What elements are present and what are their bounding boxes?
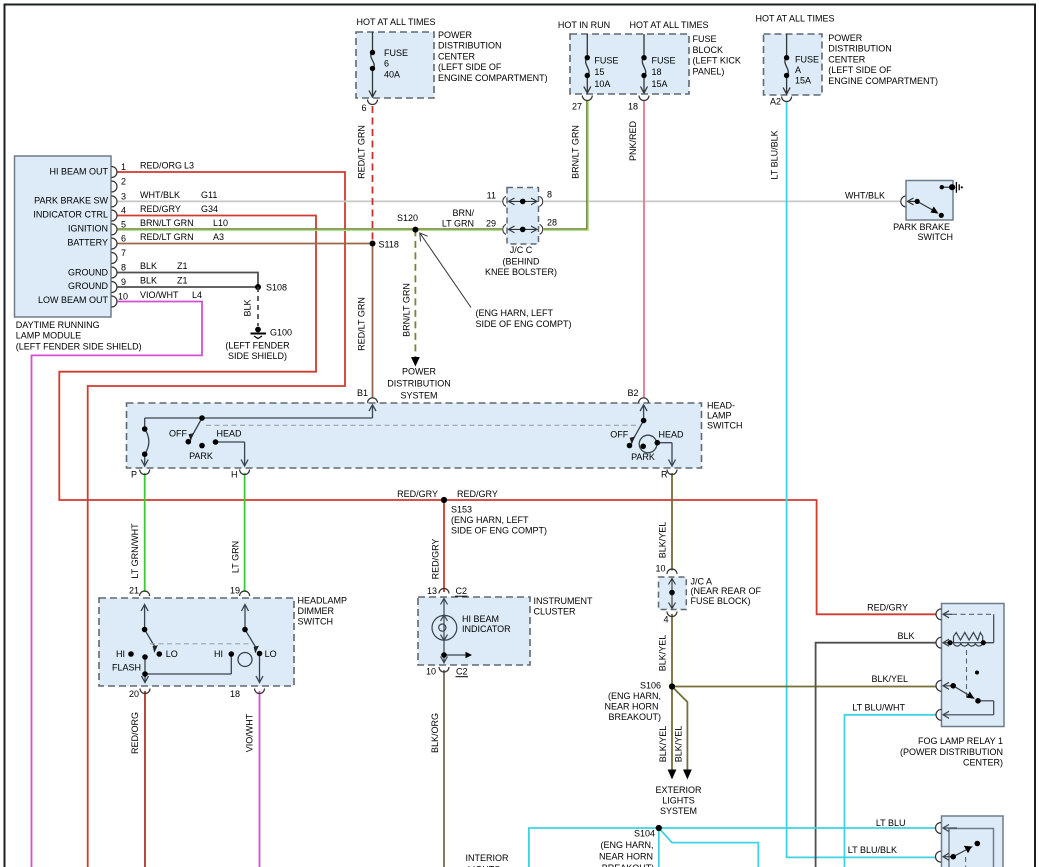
- junction connector J/C C box: [507, 188, 539, 245]
- svg-text:(LEFT FENDER: (LEFT FENDER: [225, 341, 290, 351]
- fuse 15 10A: [584, 34, 591, 93]
- svg-text:LT BLU/BLK: LT BLU/BLK: [848, 845, 897, 855]
- splice S153: [441, 497, 447, 503]
- fuse 18 connector bump: [639, 96, 649, 101]
- svg-text:RED/GRY: RED/GRY: [867, 603, 908, 613]
- splice S106: [669, 683, 675, 689]
- wire BLK from relay pin 2: [816, 643, 936, 867]
- svg-text:LAMP: LAMP: [707, 411, 732, 421]
- svg-text:LT BLU/WHT: LT BLU/WHT: [852, 703, 905, 713]
- power distribution center box (fuse A): [764, 34, 823, 95]
- svg-text:(ENG HARN,: (ENG HARN,: [608, 691, 661, 701]
- svg-text:CENTER: CENTER: [438, 51, 476, 61]
- svg-text:6: 6: [361, 103, 366, 113]
- dimmer pin 20 bump: [140, 689, 150, 694]
- instrument cluster box: [418, 597, 530, 665]
- svg-text:(ENG HARN, LEFT: (ENG HARN, LEFT: [476, 308, 554, 318]
- svg-text:EXTERIOR: EXTERIOR: [655, 785, 702, 795]
- cluster pin labels: [426, 586, 468, 677]
- svg-text:SWITCH: SWITCH: [298, 617, 334, 627]
- svg-text:FUSE: FUSE: [652, 56, 676, 66]
- svg-text:A2: A2: [770, 97, 781, 107]
- label fuse 18: [652, 56, 676, 89]
- svg-text:HOT IN RUN: HOT IN RUN: [558, 20, 610, 30]
- relay 1 armature dashed: [966, 650, 968, 697]
- fog lamp relay 2 outer box: [942, 816, 1004, 867]
- svg-text:G100: G100: [270, 328, 292, 338]
- svg-text:BREAKOUT): BREAKOUT): [608, 712, 661, 722]
- svg-text:LT BLU/BLK: LT BLU/BLK: [770, 130, 780, 179]
- svg-text:J/C C: J/C C: [510, 245, 533, 255]
- svg-text:G11: G11: [201, 190, 217, 200]
- svg-text:BLK: BLK: [897, 631, 914, 641]
- svg-text:(ENG HARN,: (ENG HARN,: [600, 840, 653, 850]
- label fuse A: [795, 55, 819, 86]
- relay 1 switch: [943, 682, 994, 718]
- svg-text:10: 10: [655, 564, 665, 574]
- svg-text:29: 29: [486, 219, 496, 229]
- DRL module pin names: [33, 166, 108, 304]
- G100 caption: [225, 341, 290, 362]
- svg-text:DISTRIBUTION: DISTRIBUTION: [828, 44, 892, 54]
- leader arrow to S120: [420, 233, 471, 308]
- fog lamp relay 1 box: [942, 604, 1005, 727]
- wire RED/ORG from DRL pin 1: [88, 172, 345, 867]
- svg-text:H: H: [231, 470, 238, 480]
- splice S104 caption: [599, 829, 655, 867]
- svg-text:Z1: Z1: [177, 261, 188, 271]
- J/C A caption: [691, 577, 762, 606]
- svg-text:(BEHIND: (BEHIND: [502, 256, 540, 266]
- arrow to exterior lights 1: [668, 770, 677, 780]
- dimmer switch contact labels: [112, 649, 277, 673]
- svg-text:(NEAR REAR OF: (NEAR REAR OF: [691, 586, 762, 596]
- svg-text:HOT AT ALL TIMES: HOT AT ALL TIMES: [629, 20, 708, 30]
- park brake switch connector bump: [901, 196, 906, 207]
- splice S153 caption: [451, 504, 547, 535]
- J/C C caption: [485, 245, 557, 277]
- park brake switch caption: [893, 222, 953, 242]
- DRL module caption: [16, 320, 142, 351]
- svg-text:5: 5: [121, 220, 126, 230]
- svg-text:RED/GRY: RED/GRY: [457, 489, 498, 499]
- relay 2 wire labels: [848, 818, 906, 855]
- wire BRN/LT GRN from DRL pin 5 to J/C C: [117, 228, 502, 230]
- svg-text:LT BLU: LT BLU: [876, 818, 906, 828]
- cluster case ground arrow: [466, 652, 473, 658]
- svg-text:LOW BEAM OUT: LOW BEAM OUT: [38, 295, 109, 305]
- headlamp switch contact labels: [169, 429, 684, 463]
- headlamp switch box: [127, 403, 702, 468]
- J/C A top bump: [667, 569, 677, 574]
- svg-text:11: 11: [487, 191, 496, 201]
- svg-text:BLK: BLK: [140, 276, 157, 286]
- svg-text:ENGINE COMPARTMENT): ENGINE COMPARTMENT): [828, 76, 938, 86]
- wire WHT/BLK from J/C C to park brake switch: [544, 200, 901, 202]
- label power distribution center 1: [438, 30, 548, 83]
- wire BLK/YEL drop 1 to exterior lights: [671, 687, 673, 771]
- svg-text:27: 27: [572, 102, 582, 112]
- svg-text:SWITCH: SWITCH: [707, 421, 743, 431]
- wire LT BLU/BLK from fuse A to fog lamp relay 2: [787, 101, 936, 857]
- svg-text:POWER: POWER: [438, 30, 473, 40]
- wire PNK/RED from fuse 18 to headlamp switch B2: [643, 101, 645, 399]
- svg-text:DAYTIME RUNNING: DAYTIME RUNNING: [16, 320, 100, 330]
- svg-text:10A: 10A: [594, 79, 610, 89]
- svg-text:HEAD: HEAD: [216, 429, 242, 439]
- relay 1 wire labels: [852, 603, 914, 713]
- svg-text:FLASH: FLASH: [112, 663, 141, 673]
- svg-text:VIO/WHT: VIO/WHT: [245, 713, 255, 752]
- svg-text:LO: LO: [265, 649, 277, 659]
- svg-text:S118: S118: [379, 240, 399, 250]
- wire VIO/WHT from dimmer pin 18: [259, 691, 261, 867]
- svg-text:SWITCH: SWITCH: [918, 232, 954, 242]
- svg-text:BREAKOUT): BREAKOUT): [602, 863, 655, 867]
- svg-text:S104: S104: [634, 829, 655, 839]
- dimmer pin 21 bump: [140, 591, 150, 596]
- svg-text:L4: L4: [192, 290, 202, 300]
- headlamp switch B1 bump: [368, 398, 378, 403]
- svg-text:4: 4: [121, 206, 126, 216]
- svg-text:A3: A3: [213, 232, 224, 242]
- svg-text:(LEFT KICK: (LEFT KICK: [693, 56, 741, 66]
- wire LT GRN from headlamp switch H to dimmer pin 19: [244, 473, 246, 592]
- svg-text:DISTRIBUTION: DISTRIBUTION: [438, 41, 502, 51]
- fuse block box (left kick panel): [570, 34, 689, 94]
- svg-text:15A: 15A: [652, 79, 668, 89]
- relay 2 switch: [943, 825, 973, 861]
- wire BLK/YEL drop 2 to exterior lights: [672, 687, 687, 771]
- relay 1 open contact: [975, 671, 979, 675]
- hi beam indicator bulb: [432, 599, 466, 664]
- svg-text:GROUND: GROUND: [68, 268, 108, 278]
- fog lamp relay 1 caption: [900, 736, 1003, 768]
- svg-text:19: 19: [230, 586, 240, 596]
- svg-text:HEAD-: HEAD-: [707, 401, 735, 411]
- svg-text:PNK/RED: PNK/RED: [628, 120, 638, 161]
- svg-text:S108: S108: [266, 283, 287, 293]
- label fuse 6: [384, 48, 408, 79]
- park brake switch contacts and blade: [908, 187, 953, 212]
- junction connector J/C A box: [659, 577, 687, 610]
- svg-text:6: 6: [121, 234, 126, 244]
- svg-text:LT GRN: LT GRN: [231, 541, 241, 573]
- svg-text:OFF: OFF: [610, 430, 628, 440]
- svg-text:10: 10: [426, 667, 436, 677]
- svg-text:INTERIOR: INTERIOR: [465, 853, 509, 863]
- wire RED/LT GRN from DRL pin 6 to S118: [117, 243, 373, 245]
- cluster pin 13 bump: [439, 589, 449, 594]
- label fuse block: [693, 34, 741, 76]
- wire RED/GRY from DRL pin 4 to S153 to fog lamp relay: [59, 216, 936, 615]
- svg-text:A: A: [795, 65, 801, 75]
- svg-text:RED/GRY: RED/GRY: [397, 489, 438, 499]
- svg-text:(POWER DISTRIBUTION: (POWER DISTRIBUTION: [900, 747, 1003, 757]
- svg-text:POWER: POWER: [402, 367, 437, 377]
- svg-text:PARK BRAKE: PARK BRAKE: [893, 222, 950, 232]
- svg-text:HEADLAMP: HEADLAMP: [298, 595, 348, 605]
- wire RED/LT GRN from S118 to headlamp switch B1: [372, 244, 374, 399]
- svg-text:(ENG HARN, LEFT: (ENG HARN, LEFT: [451, 515, 529, 525]
- svg-text:(LEFT SIDE OF: (LEFT SIDE OF: [828, 65, 892, 75]
- headlamp switch B2 bump: [639, 398, 649, 403]
- fuse 15 connector bump: [582, 96, 592, 101]
- svg-text:P: P: [131, 470, 137, 480]
- headlamp switch B2 side: [633, 405, 676, 466]
- svg-text:18: 18: [652, 67, 662, 77]
- svg-text:LT GRN/WHT: LT GRN/WHT: [130, 523, 140, 579]
- svg-text:B1: B1: [357, 388, 368, 398]
- interior lights caption: [465, 853, 509, 867]
- dimmer mechanical link dashed: [150, 643, 250, 645]
- svg-text:LIGHTS: LIGHTS: [662, 796, 695, 806]
- svg-text:FUSE: FUSE: [594, 56, 618, 66]
- fuse A 15A: [783, 34, 790, 94]
- J/C C pin labels: [486, 190, 557, 229]
- splice S108: [255, 284, 261, 290]
- wire labels RED/GRY horizontal: [397, 489, 498, 499]
- svg-text:L10: L10: [213, 218, 228, 228]
- svg-text:15A: 15A: [795, 76, 811, 86]
- power distribution center box (fuse 6): [356, 32, 434, 98]
- relay 2 pin bumps: [936, 823, 942, 863]
- relay 2 armature dashed: [965, 857, 967, 867]
- svg-text:40A: 40A: [384, 69, 400, 79]
- wire BRN/LT GRN dashed from S120 to power distribution system: [414, 229, 416, 357]
- svg-text:LT GRN: LT GRN: [442, 219, 474, 229]
- svg-text:SIDE OF ENG COMPT): SIDE OF ENG COMPT): [451, 526, 547, 536]
- svg-text:B2: B2: [627, 388, 638, 398]
- svg-text:BLK/YEL: BLK/YEL: [674, 726, 684, 763]
- svg-text:RED/LT GRN: RED/LT GRN: [140, 232, 194, 242]
- dimmer switch pin labels: [129, 586, 240, 700]
- svg-text:1: 1: [121, 162, 126, 172]
- C2 underlines: [455, 595, 468, 597]
- headlamp switch caption: [707, 401, 743, 431]
- splice S104: [656, 825, 662, 831]
- svg-text:NEAR HORN: NEAR HORN: [599, 852, 653, 862]
- svg-text:S106: S106: [640, 681, 661, 691]
- svg-text:7: 7: [121, 248, 126, 258]
- svg-text:13: 13: [427, 586, 437, 596]
- svg-text:HI BEAM OUT: HI BEAM OUT: [49, 166, 108, 176]
- svg-text:BLK/YEL: BLK/YEL: [658, 726, 668, 763]
- svg-text:RED/LT GRN: RED/LT GRN: [357, 297, 367, 351]
- headlamp dimmer switch box: [99, 598, 294, 686]
- exterior lights caption: [655, 785, 702, 816]
- svg-text:BATTERY: BATTERY: [67, 238, 108, 248]
- svg-text:DIMMER: DIMMER: [298, 606, 335, 616]
- hi beam indicator label: [462, 614, 511, 634]
- svg-text:S120: S120: [397, 213, 418, 223]
- daytime running lamp module box: [15, 156, 112, 317]
- wire BRN/LT GRN from J/C C pin 28 up to fuse 15: [544, 101, 587, 229]
- svg-text:S153: S153: [451, 504, 472, 514]
- splice S118: [370, 241, 376, 247]
- fuse 18 15A: [641, 34, 648, 93]
- svg-text:Z1: Z1: [177, 276, 188, 286]
- park brake switch box: [906, 181, 953, 221]
- cluster pin 10 bump: [439, 667, 449, 672]
- wire LT BLU below S104: [658, 828, 660, 867]
- fog lamp relay 2 inner box: [949, 829, 994, 867]
- svg-text:VIO/WHT: VIO/WHT: [140, 290, 179, 300]
- svg-text:(LEFT SIDE OF: (LEFT SIDE OF: [438, 62, 502, 72]
- svg-text:C2: C2: [456, 586, 468, 596]
- J/C C pin 11/8 connector: [503, 196, 543, 206]
- svg-text:HI: HI: [214, 649, 223, 659]
- svg-text:6: 6: [384, 59, 389, 69]
- svg-text:RED/GRY: RED/GRY: [140, 204, 181, 214]
- wire BLK/YEL from S106 to fog lamp relay 1: [672, 686, 936, 688]
- svg-text:NEAR HORN: NEAR HORN: [604, 702, 658, 712]
- svg-text:GROUND: GROUND: [68, 281, 108, 291]
- svg-text:OFF: OFF: [169, 429, 187, 439]
- svg-text:G34: G34: [201, 204, 218, 214]
- splice S120: [412, 227, 418, 233]
- svg-text:BLK: BLK: [243, 299, 253, 316]
- label fuse 15: [594, 56, 618, 89]
- svg-text:PANEL): PANEL): [693, 66, 725, 76]
- svg-text:PARK BRAKE SW: PARK BRAKE SW: [34, 196, 108, 206]
- svg-text:BLK/ORG: BLK/ORG: [430, 713, 440, 753]
- wire BLK from DRL pin 8: [117, 273, 258, 288]
- svg-text:BLK/YEL: BLK/YEL: [658, 522, 668, 559]
- svg-text:BRN/LT GRN: BRN/LT GRN: [571, 125, 581, 179]
- svg-text:CENTER: CENTER: [828, 54, 866, 64]
- dimmer switch caption: [298, 595, 348, 626]
- wire label BRN/LT GRN at J/C C: [442, 208, 475, 229]
- relay 1 coil circuit: [943, 611, 994, 646]
- svg-text:18: 18: [230, 689, 240, 699]
- wire BLK from DRL pin 9 to S108: [117, 286, 258, 288]
- wire VIO/WHT from DRL pin 10: [32, 302, 203, 867]
- wire LT GRN/WHT from headlamp switch P to dimmer pin 21: [144, 473, 146, 592]
- dimmer left switch: [141, 605, 231, 683]
- svg-text:SYSTEM: SYSTEM: [400, 391, 437, 401]
- svg-text:SIDE OF ENG COMPT): SIDE OF ENG COMPT): [476, 319, 572, 329]
- svg-text:INDICATOR: INDICATOR: [462, 624, 511, 634]
- svg-text:J/C A: J/C A: [691, 577, 713, 587]
- svg-text:20: 20: [129, 689, 139, 699]
- DRL wire id labels: [140, 161, 228, 301]
- park brake case ground symbol: [956, 182, 959, 193]
- svg-text:BRN/LT GRN: BRN/LT GRN: [140, 218, 194, 228]
- svg-text:DISTRIBUTION: DISTRIBUTION: [387, 379, 451, 389]
- wire LT BLU through S104 to relay 2: [529, 828, 936, 867]
- svg-text:RED/LT GRN: RED/LT GRN: [357, 125, 367, 179]
- J/C A internal connector: [669, 579, 676, 609]
- svg-text:15: 15: [594, 67, 604, 77]
- arrow to exterior lights 2: [683, 770, 692, 780]
- svg-text:INDICATOR CTRL: INDICATOR CTRL: [33, 210, 108, 220]
- svg-text:SIDE SHIELD): SIDE SHIELD): [228, 351, 287, 361]
- svg-text:FUSE: FUSE: [384, 48, 408, 58]
- svg-text:KNEE BOLSTER): KNEE BOLSTER): [485, 267, 557, 277]
- svg-text:8: 8: [547, 190, 552, 200]
- ground G100: [251, 327, 267, 339]
- headlamp switch mechanical link dashed: [206, 424, 637, 426]
- svg-text:BRN/: BRN/: [452, 208, 474, 218]
- svg-text:3: 3: [121, 192, 126, 202]
- fuse 6 40A: [369, 32, 376, 97]
- svg-text:FOG LAMP RELAY 1: FOG LAMP RELAY 1: [918, 736, 1003, 746]
- svg-text:BLK/YEL: BLK/YEL: [871, 674, 908, 684]
- svg-text:R: R: [661, 470, 668, 480]
- svg-text:HEAD: HEAD: [658, 430, 684, 440]
- DRL pin numbers: [118, 162, 128, 302]
- DRL pin bumps 1-10: [112, 167, 118, 308]
- svg-text:FUSE: FUSE: [693, 34, 717, 44]
- relay 1 pin bumps: [936, 609, 942, 721]
- svg-text:21: 21: [129, 586, 139, 596]
- svg-text:IGNITION: IGNITION: [68, 224, 108, 234]
- svg-text:BLK: BLK: [140, 261, 157, 271]
- fuse 6 connector bump: [368, 100, 378, 105]
- svg-text:HI BEAM: HI BEAM: [462, 614, 499, 624]
- svg-text:28: 28: [547, 218, 557, 228]
- svg-text:RED/GRY: RED/GRY: [431, 539, 441, 580]
- wire BLK dashed from S108 to G100: [257, 287, 259, 326]
- svg-text:C2: C2: [456, 667, 468, 677]
- svg-text:LO: LO: [166, 649, 178, 659]
- svg-text:BRN/LT GRN: BRN/LT GRN: [402, 283, 412, 337]
- fuse A connector bump: [782, 97, 792, 102]
- wire RED/LT GRN dashed from fuse 6 to S118: [372, 106, 374, 244]
- svg-text:SYSTEM: SYSTEM: [660, 806, 697, 816]
- svg-text:PARK: PARK: [631, 452, 655, 462]
- svg-text:BLOCK: BLOCK: [693, 45, 724, 55]
- headlamp switch R bump: [667, 470, 677, 475]
- J/C A bottom bump: [667, 612, 677, 617]
- wire BLK/YEL from J/C A to S106: [671, 614, 673, 687]
- instrument cluster caption: [534, 596, 593, 617]
- svg-text:BLK/YEL: BLK/YEL: [658, 635, 668, 672]
- svg-text:2: 2: [121, 177, 126, 187]
- svg-text:10: 10: [118, 292, 128, 302]
- svg-text:4: 4: [663, 615, 668, 625]
- svg-text:POWER: POWER: [828, 33, 863, 43]
- svg-text:(LEFT FENDER SIDE SHIELD): (LEFT FENDER SIDE SHIELD): [16, 341, 142, 351]
- svg-text:HOT AT ALL TIMES: HOT AT ALL TIMES: [356, 17, 435, 27]
- power distribution system caption: [387, 367, 451, 401]
- wire RED/ORG from dimmer pin 20: [144, 691, 146, 867]
- svg-text:WHT/BLK: WHT/BLK: [140, 190, 180, 200]
- dimmer pin 18 bump: [255, 689, 265, 694]
- headlamp switch terminal labels: [131, 388, 668, 480]
- dimmer right switch: [238, 605, 263, 683]
- svg-text:CLUSTER: CLUSTER: [534, 607, 577, 617]
- wire BLK/YEL from headlamp switch R to J/C A: [671, 473, 673, 571]
- wire LT BLU branch from S104: [659, 828, 759, 867]
- svg-text:8: 8: [121, 263, 126, 273]
- svg-text:WHT/BLK: WHT/BLK: [845, 191, 885, 201]
- J/C C pin 29/28 connector: [503, 224, 543, 234]
- svg-text:CENTER): CENTER): [963, 758, 1003, 768]
- label power distribution center 2: [828, 33, 938, 86]
- svg-text:RED/ORG: RED/ORG: [130, 712, 140, 754]
- svg-text:INSTRUMENT: INSTRUMENT: [534, 596, 593, 606]
- svg-text:9: 9: [121, 277, 126, 287]
- svg-text:PARK: PARK: [189, 451, 213, 461]
- headlamp switch P bump: [140, 470, 150, 475]
- dimmer pin 19 bump: [240, 591, 250, 596]
- J/C A pin labels: [655, 564, 668, 625]
- svg-text:ENGINE COMPARTMENT): ENGINE COMPARTMENT): [438, 73, 548, 83]
- svg-text:HOT AT ALL TIMES: HOT AT ALL TIMES: [755, 14, 834, 24]
- svg-text:18: 18: [628, 102, 638, 112]
